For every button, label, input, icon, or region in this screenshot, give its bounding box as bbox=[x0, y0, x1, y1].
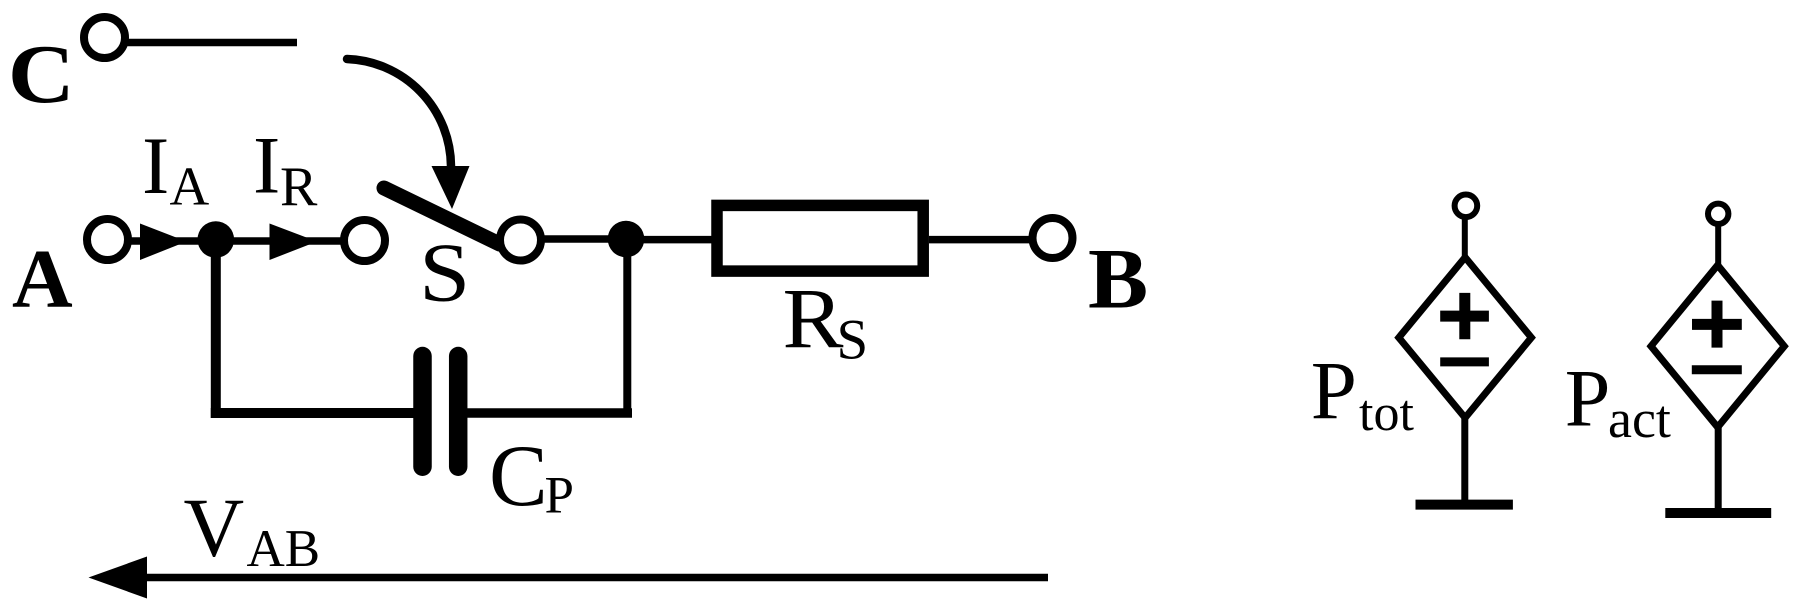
svg-text:C: C bbox=[489, 428, 548, 525]
svg-text:AB: AB bbox=[247, 520, 321, 578]
source Ptot bottom stem bbox=[1461, 414, 1468, 505]
svg-text:P: P bbox=[1311, 345, 1357, 437]
svg-text:I: I bbox=[142, 120, 169, 211]
terminal B bbox=[1033, 218, 1073, 258]
svg-text:R: R bbox=[783, 270, 845, 366]
arrowhead of curved arrow bbox=[432, 166, 470, 209]
svg-text:V: V bbox=[184, 482, 245, 575]
resistor RS bbox=[717, 205, 923, 271]
svg-text:P: P bbox=[545, 466, 574, 524]
source Pact top stem bbox=[1715, 224, 1721, 270]
source Pact diamond bbox=[1651, 265, 1784, 427]
source Ptot ground bar bbox=[1416, 500, 1513, 510]
source Ptot diamond bbox=[1399, 257, 1532, 418]
source Pact terminal circle bbox=[1708, 204, 1728, 224]
node 1 bbox=[198, 221, 235, 258]
source Ptot terminal circle bbox=[1455, 195, 1478, 218]
wire resistor to B bbox=[929, 236, 1030, 244]
voltage arrow VAB line bbox=[141, 574, 1048, 582]
source Pact ground bar bbox=[1665, 508, 1771, 518]
svg-text:P: P bbox=[1565, 352, 1611, 443]
svg-text:I: I bbox=[253, 120, 280, 211]
wire node2 to resistor bbox=[627, 236, 712, 244]
switch S left contact bbox=[344, 220, 385, 261]
svg-text:act: act bbox=[1608, 389, 1671, 449]
source Pact plus sign bbox=[1692, 301, 1742, 348]
svg-text:A: A bbox=[170, 155, 210, 216]
source Ptot plus sign bbox=[1440, 293, 1489, 339]
source Ptot top stem bbox=[1462, 217, 1468, 262]
wire node2 down bbox=[623, 240, 631, 418]
wire capacitor to node2 vertical bbox=[467, 408, 632, 418]
voltage arrow VAB head bbox=[89, 557, 148, 599]
wire switch to node 2 bbox=[541, 235, 627, 243]
terminal C bbox=[84, 17, 125, 58]
svg-text:R: R bbox=[280, 156, 318, 218]
wire bottom left to capacitor bbox=[211, 408, 416, 418]
source Pact minus sign bbox=[1692, 365, 1742, 374]
svg-text:tot: tot bbox=[1359, 385, 1414, 442]
terminal A bbox=[87, 219, 128, 260]
current arrow IR bbox=[270, 224, 318, 261]
svg-text:S: S bbox=[837, 308, 869, 371]
source Ptot minus sign bbox=[1440, 357, 1489, 366]
svg-text:B: B bbox=[1088, 231, 1148, 327]
node 2 bbox=[608, 221, 645, 258]
curved arrow to switch bbox=[347, 59, 451, 166]
svg-text:A: A bbox=[12, 233, 73, 326]
current arrow IA bbox=[140, 224, 187, 261]
capacitor CP left plate bbox=[413, 356, 432, 467]
svg-text:C: C bbox=[8, 28, 75, 121]
wire A to switch bbox=[128, 237, 341, 245]
switch S right contact bbox=[500, 220, 541, 261]
source Pact bottom stem bbox=[1715, 424, 1722, 513]
switch S blade bbox=[384, 188, 500, 244]
wire node1 down bbox=[211, 240, 221, 418]
capacitor CP right plate bbox=[449, 356, 468, 467]
wire from terminal C bbox=[127, 39, 297, 47]
svg-text:S: S bbox=[419, 227, 470, 320]
